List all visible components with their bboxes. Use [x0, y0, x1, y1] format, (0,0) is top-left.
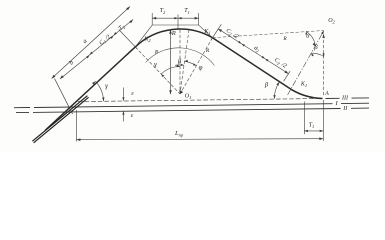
svg-text:K1: K1: [203, 29, 210, 36]
apex division tick: [177, 15, 179, 30]
phi angle arc O1: [185, 61, 197, 65]
beta angle arc O1: [175, 64, 184, 66]
svg-text:O2: O2: [328, 18, 335, 25]
track II line: [16, 111, 29, 113]
extension V2 from K2: [135, 25, 152, 47]
T1 bottom dimension: [304, 130, 323, 132]
right chain line: [218, 29, 289, 74]
summit curve: [135, 29, 212, 47]
tick at d3: [284, 71, 291, 81]
siding double line upper rail: [32, 96, 87, 142]
svg-text:T2: T2: [160, 8, 166, 15]
R dimension line: [170, 30, 172, 95]
left slope tangent: [45, 47, 135, 131]
horizontal tangent at apex: [152, 24, 199, 26]
O2 vertical dashed: [322, 35, 324, 97]
extension below A: [322, 100, 324, 141]
radius O2-K1prime dashdot: [288, 31, 324, 95]
gamma angle arc O1: [161, 67, 180, 75]
beta angle arc O2: [311, 53, 324, 56]
epsilon upper dimension: [122, 88, 124, 101]
radius O1-K1: [180, 38, 213, 94]
beta angle arc at low vertex: [274, 82, 279, 99]
extension below low vertex: [303, 102, 305, 135]
L dimension line: [76, 139, 323, 140]
dimension chain b-C1/2-T2: [60, 20, 133, 80]
track I line: [14, 107, 30, 109]
grade line K1-K1prime: [213, 38, 292, 90]
tick through K1: [211, 24, 221, 40]
large arc r45 around O1: [146, 48, 215, 66]
top dimension line: [152, 17, 199, 19]
beta ray from O1: [180, 30, 189, 94]
svg-text:α: α: [306, 33, 310, 40]
svg-text:K1: K1: [300, 82, 307, 89]
ray O2-K1 dashed: [213, 31, 325, 38]
radius O1-K2: [135, 47, 180, 94]
svg-text:γ: γ: [105, 82, 108, 90]
svg-text:III: III: [341, 95, 349, 101]
datum dashed line: [78, 99, 320, 102]
crossing extension tick: [55, 79, 73, 115]
dimension line a: [52, 7, 130, 79]
vertical axis dashed: [179, 30, 181, 94]
extension V1 from K1: [199, 25, 213, 38]
svg-text:O1: O1: [185, 93, 192, 100]
siding double line lower rail: [34, 97, 89, 143]
extension below crossing: [75, 110, 77, 142]
epsilon lower dimension: [122, 111, 124, 121]
tick through K2: [119, 30, 138, 50]
svg-text:R: R: [171, 30, 176, 37]
gamma angle arc at X: [95, 81, 103, 101]
lower curve to A: [291, 89, 323, 98]
svg-text:γ: γ: [154, 61, 157, 69]
svg-text:T1: T1: [309, 122, 315, 129]
svg-text:A: A: [324, 91, 329, 97]
track III line: [326, 97, 340, 99]
svg-text:T1: T1: [184, 8, 190, 15]
alpha angle arc O2: [306, 32, 315, 47]
svg-text:K2: K2: [143, 37, 151, 44]
svg-text:R: R: [205, 48, 210, 54]
svg-text:φ: φ: [199, 64, 203, 72]
svg-text:R: R: [282, 36, 287, 42]
